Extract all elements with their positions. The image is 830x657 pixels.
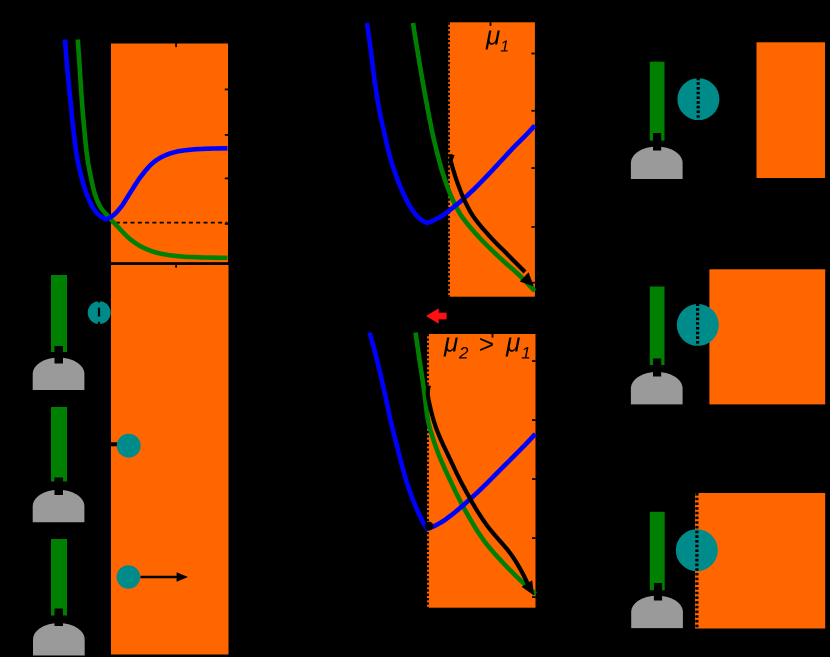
plot 1 x tick bottom xyxy=(175,264,177,268)
illustration L1 tip connector xyxy=(55,346,64,364)
illustration L2 contact tick xyxy=(111,442,120,446)
illustration R3 tip dome (gray) xyxy=(631,596,683,628)
plot 2 y ticks on right spine xyxy=(531,53,534,55)
plot 1 green adhesion curve xyxy=(78,40,228,258)
plot 3 y ticks on right spine xyxy=(532,360,535,362)
plot 1 lower substrate block (orange) xyxy=(111,265,229,655)
svg-text:μ2 > μ1: μ2 > μ1 xyxy=(443,328,531,363)
plot 1 y ticks on right spine xyxy=(225,89,228,91)
illustration L3 tip connector xyxy=(55,609,64,627)
illustration L2 particle (teal) xyxy=(117,434,141,458)
illustration L3 cantilever rod xyxy=(51,539,67,616)
plot 1 shaded contact region (orange) xyxy=(111,44,228,263)
illustration R1 cantilever rod xyxy=(650,62,665,141)
red arrow pointing left xyxy=(426,308,447,323)
illustration L3 sliding arrow xyxy=(141,576,179,578)
illustration R2 dashed reference line xyxy=(696,303,699,346)
illustration R3 particle (teal) xyxy=(676,529,718,571)
illustration R3 cantilever rod xyxy=(650,512,665,591)
illustration L1 particle (teal) xyxy=(88,301,111,324)
plot 3 contact point dot xyxy=(425,522,434,531)
plot 2 dashed contact line xyxy=(448,22,450,296)
illustration R1 tip connector xyxy=(653,133,661,151)
plot 3 dashed contact line xyxy=(427,334,429,608)
illustration L2 cantilever rod xyxy=(51,407,67,482)
illustration R1 particle (teal) xyxy=(677,78,719,120)
plot 2 trajectory arrowhead xyxy=(520,272,534,286)
plot 1 x tick top xyxy=(175,44,177,48)
plot 2 green adhesion curve xyxy=(413,23,535,291)
plot 2 x tick bottom xyxy=(490,297,492,301)
plot 3 x tick bottom xyxy=(493,608,495,612)
illustration L2 tip connector xyxy=(55,478,64,496)
illustration R2 substrate block (orange) xyxy=(709,269,825,404)
illustration R3 dashed reference line xyxy=(695,493,698,629)
plot 3 black trajectory curve xyxy=(428,386,528,584)
plot 3 blue potential curve xyxy=(370,333,536,529)
illustration R1 substrate block (orange) xyxy=(757,42,826,178)
plot 1 blue potential curve xyxy=(65,40,228,220)
illustration R2 particle (teal) xyxy=(677,304,719,346)
illustration R3 tip connector xyxy=(654,583,662,601)
plot 3 trajectory arrowhead xyxy=(522,580,534,595)
illustration L3 particle (teal) xyxy=(117,565,141,589)
illustration L1 tip dome (gray) xyxy=(33,358,85,390)
plot 1 bottom axis spine xyxy=(104,262,235,264)
illustration R1 dashed reference line xyxy=(697,78,700,121)
illustration L2 tip dome (gray) xyxy=(33,490,85,522)
illustration R2 tip connector xyxy=(653,359,661,377)
illustration L1 dashed mark xyxy=(98,294,100,326)
plot 3 shaded region (orange) xyxy=(427,334,536,608)
plot 1 dashed energy level line xyxy=(94,222,228,224)
plot 2 x tick top xyxy=(490,22,492,26)
plot 3 green adhesion curve xyxy=(416,333,536,595)
plot 2 black trajectory curve xyxy=(451,155,526,273)
illustration R1 tip dome (gray) xyxy=(631,147,683,179)
illustration L1 cantilever rod xyxy=(51,275,67,352)
illustration L3 tip dome (gray) xyxy=(33,623,85,655)
plot 2 blue potential curve xyxy=(367,23,535,223)
illustration R2 cantilever rod xyxy=(650,287,665,366)
illustration R2 tip dome (gray) xyxy=(631,372,683,404)
plot 3 x tick top xyxy=(492,334,494,338)
plot 2 shaded region (orange) xyxy=(448,22,535,296)
illustration R3 substrate block (orange) xyxy=(695,493,825,629)
